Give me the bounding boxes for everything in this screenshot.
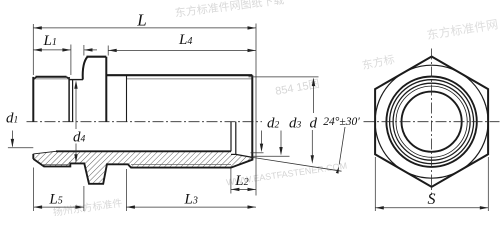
d3 leader bbox=[280, 131, 282, 150]
internal cone edge bbox=[231, 153, 236, 155]
d3 extension bbox=[253, 155, 290, 157]
thread start line bbox=[126, 75, 128, 122]
ext line right end bbox=[255, 24, 257, 196]
thread end line 1 bbox=[68, 77, 70, 122]
d dim upper arrow bbox=[313, 84, 315, 113]
groove top line bbox=[69, 79, 83, 81]
dim line L2 bbox=[231, 188, 256, 190]
centerline left view bbox=[27, 121, 263, 123]
hex right edge bbox=[105, 57, 107, 122]
svg-text:d: d bbox=[310, 116, 318, 132]
cone extension line bbox=[252, 157, 341, 171]
hex centerline horizontal bbox=[364, 121, 500, 123]
ext line hex left bottom bbox=[83, 186, 85, 211]
thread top major bbox=[36, 76, 67, 78]
ext line L2 left bbox=[230, 169, 232, 194]
bore chamfer left end bbox=[33, 151, 56, 154]
ext line left face bottom bbox=[33, 168, 35, 212]
thread runout slant bbox=[67, 77, 70, 79]
ext line hex left bbox=[83, 45, 85, 56]
S dim ext left bbox=[374, 157, 376, 211]
dim line L1 bbox=[33, 49, 71, 51]
ext line left face top bbox=[32, 24, 34, 75]
left top chamfer bbox=[33, 77, 36, 80]
left end face upper bbox=[32, 77, 34, 122]
d2 extension bbox=[251, 152, 264, 154]
dim line L4 bbox=[108, 49, 256, 51]
d extension top bbox=[249, 76, 319, 78]
body top minor thin bbox=[127, 78, 252, 80]
d1 extension bbox=[8, 147, 33, 149]
d4 dim upper arrow bbox=[75, 86, 77, 129]
dim line L5 bbox=[34, 206, 84, 208]
hexagon chamfer circle bbox=[375, 65, 488, 178]
d1 leader bbox=[11, 131, 13, 147]
bore line bbox=[56, 150, 231, 152]
thread minor line bottom left bbox=[42, 164, 70, 166]
hexagon outline bbox=[375, 57, 488, 187]
d2 leader bbox=[261, 131, 263, 147]
internal step line 1 bbox=[230, 122, 232, 152]
ext line hex right bbox=[107, 46, 109, 56]
svg-text:L: L bbox=[136, 10, 146, 29]
small gap dim arrow bbox=[84, 49, 97, 51]
section hatch band bbox=[33, 151, 252, 184]
S dim line bbox=[375, 207, 488, 209]
d dim lower arrow bbox=[311, 130, 313, 158]
outer profile bottom bbox=[33, 157, 252, 183]
ext line thread start bottom bbox=[125, 169, 127, 211]
hex left chamfer arc bbox=[83, 57, 88, 80]
hex centerline vertical bbox=[431, 49, 433, 196]
thread circles bbox=[386, 77, 476, 167]
hex top flat bbox=[87, 56, 107, 58]
d4 dim lower arrow bbox=[75, 144, 77, 159]
thread top minor thin bbox=[35, 78, 69, 80]
angle leader line bbox=[339, 127, 345, 165]
dim line L bbox=[33, 27, 256, 29]
body top major bbox=[106, 74, 252, 76]
thread minor line bottom right bbox=[131, 163, 231, 165]
svg-text:S: S bbox=[428, 191, 436, 208]
dim line L3 bbox=[126, 206, 256, 208]
thread end line 2 bbox=[72, 80, 74, 122]
internal step line 2 bbox=[235, 122, 237, 155]
ext line thread end bbox=[70, 45, 72, 76]
svg-text:24°±30′: 24°±30′ bbox=[323, 116, 360, 128]
S dim ext right bbox=[487, 157, 489, 211]
left end face lower bbox=[32, 154, 34, 159]
right end face bbox=[251, 75, 253, 159]
